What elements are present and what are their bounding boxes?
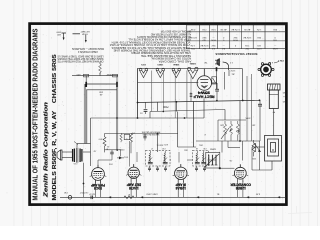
svg-text:TRIM: TRIM — [82, 33, 88, 35]
svg-text:1M: 1M — [252, 124, 255, 126]
svg-text:12AT6: 12AT6 — [129, 186, 139, 190]
capacitor C16 on bus — [90, 196, 92, 200]
svg-text:LINE: LINE — [272, 47, 277, 49]
wire v2 x129 — [129, 141, 131, 167]
wire transformer top to bus — [77, 143, 91, 145]
wire stubs 600 line to bar — [85, 76, 87, 84]
wire x251.5 drop — [251, 74, 253, 141]
wires IF to tubes — [170, 159, 171, 161]
wire x177.5 drop low — [177, 112, 179, 148]
wire main vertical x137.5 — [137, 69, 139, 118]
speaker — [57, 150, 62, 160]
svg-text:VOLTAGES MEASURED FROM SOCKET: VOLTAGES MEASURED FROM SOCKET TERMINALS … — [111, 40, 190, 43]
wire v3 top — [178, 152, 180, 163]
svg-text:USE AN ISOLATION TRANSFORMER W: USE AN ISOLATION TRANSFORMER WHEN — [131, 51, 191, 54]
resistor small x121 — [120, 134, 122, 143]
svg-text:PIN 1: PIN 1 — [277, 59, 283, 61]
component box 10K — [124, 134, 130, 139]
svg-text:75V: 75V — [245, 47, 249, 49]
svg-text:USED CHASSIS 2: USED CHASSIS 2 — [77, 50, 98, 53]
resistor on bus — [124, 196, 134, 199]
svg-text:220K: 220K — [119, 148, 124, 150]
wire x157.5 drop to IF — [157, 134, 159, 153]
svg-text:WAVE MAGNET — DATA ABOVE: WAVE MAGNET — DATA ABOVE — [72, 47, 104, 50]
svg-text:12BE6: 12BE6 — [189, 62, 196, 64]
tube V1 50C5 output — [90, 165, 107, 184]
wire right side vertical — [116, 84, 118, 150]
resistor R12 vertical — [223, 121, 226, 141]
svg-text:117V: 117V — [230, 69, 235, 71]
wire x204 tube down — [203, 99, 205, 119]
svg-text:TAKEN WITH SET OPERATING FROM: TAKEN WITH SET OPERATING FROM THE POWER … — [113, 49, 190, 52]
IF transformer T1 1st IF dashed can — [193, 150, 209, 166]
svg-text:12V: 12V — [257, 44, 261, 46]
tube V5 35W4 rectifier — [197, 69, 217, 91]
svg-text:RECT HALF: RECT HALF — [194, 94, 215, 98]
svg-text:455 KC: 455 KC — [156, 144, 163, 146]
svg-text:PM: PM — [64, 191, 67, 193]
svg-text:AC IN: AC IN — [244, 28, 250, 31]
svg-text:SERVICING THIS RECEIVER SEE TH: SERVICING THIS RECEIVER SEE THE — [140, 54, 190, 56]
wire x176.5 drop — [176, 102, 178, 112]
svg-text:95V: 95V — [211, 44, 215, 46]
svg-text:7.5V: 7.5V — [245, 44, 250, 46]
capacitor C5 — [111, 150, 113, 152]
svg-text:TONE SWITCH AT NORMAL DIAL SET: TONE SWITCH AT NORMAL DIAL SET AT 540 KC… — [111, 46, 190, 49]
svg-text:OUTPUT: OUTPUT — [79, 191, 88, 193]
svg-text:95V: 95V — [273, 28, 277, 30]
wire crossbar y90 — [86, 89, 117, 91]
svg-text:117V AC: 117V AC — [200, 44, 209, 47]
wave magnet loop antenna nested boxes — [265, 136, 282, 162]
terminal circle — [68, 196, 72, 200]
svg-text:M: M — [272, 148, 274, 151]
capacitor C9 — [215, 88, 219, 90]
wire grid bus y133.5 — [105, 133, 179, 135]
svg-text:SHOWN IN OHMS: SHOWN IN OHMS — [142, 133, 159, 135]
arrows on bus — [108, 196, 111, 198]
svg-text:GANG: GANG — [210, 148, 217, 151]
svg-text:7.5V: 7.5V — [202, 28, 207, 30]
wire bottom AC bus — [60, 196, 286, 198]
AC line plug — [215, 59, 229, 70]
border frame — [30, 24, 287, 205]
svg-text:LEWIS IS BLOWN BACK TONE IF WA: LEWIS IS BLOWN BACK TONE IF WAVE US — [57, 54, 103, 57]
svg-text:AC: AC — [231, 73, 234, 76]
heater drop wires — [151, 71, 153, 112]
resistor line cord 600 ohm — [72, 75, 118, 77]
svg-text:175: 175 — [132, 131, 135, 133]
caps below IF cans — [149, 166, 151, 168]
junction tick on heater line — [216, 67, 218, 71]
svg-text:12BA6: 12BA6 — [176, 186, 186, 190]
tuning capacitor gang — [206, 152, 220, 168]
svg-text:OSC: OSC — [198, 144, 203, 146]
svg-text:C10: C10 — [203, 147, 206, 149]
wire x247 drop — [246, 76, 248, 141]
tube socket bottom view diagram — [258, 63, 274, 77]
svg-text:47K: 47K — [164, 143, 168, 145]
tube V3 12BA6 IF amp — [173, 164, 189, 182]
wire bus y141 right segment — [196, 140, 260, 142]
resistor R surge left of T5 — [190, 75, 192, 93]
wire y111.5 L — [150, 110, 225, 112]
resistor R14 vertical — [236, 121, 239, 141]
svg-text:EXT ANT: EXT ANT — [80, 30, 90, 33]
wire plate line y82.4 to rectifier — [138, 81, 199, 83]
svg-text:117V AC: 117V AC — [231, 28, 240, 31]
svg-text:12AT6: 12AT6 — [156, 63, 163, 66]
svg-text:VTVM NO SIGNAL LINE AT 117V AC: VTVM NO SIGNAL LINE AT 117V AC VOLUME CO… — [109, 43, 190, 46]
svg-text:75V: 75V — [202, 38, 206, 40]
svg-text:117V AC: 117V AC — [188, 36, 197, 39]
svg-text:C12: C12 — [162, 147, 165, 149]
trimmer cap TRIM label + arrow — [73, 33, 81, 35]
svg-text:LINE CORD: LINE CORD — [146, 193, 158, 195]
capacitor C6 below grid bus — [144, 134, 146, 137]
dial lamp assembly top bar — [87, 83, 118, 85]
wire y120 — [218, 119, 246, 121]
svg-text:L7: L7 — [151, 147, 153, 149]
wire voice coil — [62, 151, 72, 153]
svg-text:HTR: HTR — [256, 47, 261, 49]
svg-text:1.2V: 1.2V — [256, 28, 261, 30]
svg-text:ADJUST TRIMMERS FOR MAX READIN: ADJUST TRIMMERS FOR MAX READING ALWAYS — [137, 35, 191, 38]
svg-text:117V AC: 117V AC — [243, 36, 252, 39]
svg-text:95V: 95V — [233, 36, 237, 38]
svg-text:12BA6: 12BA6 — [172, 63, 179, 66]
wire from 600 ohm to pilot resistor — [99, 63, 101, 65]
svg-text:35W4: 35W4 — [198, 91, 210, 95]
wire jog y147 — [178, 146, 197, 148]
svg-text:KEEP SIGNAL INPUT LOW AS POSSI: KEEP SIGNAL INPUT LOW AS POSSIBLE NOTE A… — [128, 38, 191, 41]
svg-text:MANUAL OF 1955 MOST-OFTEN-NEED: MANUAL OF 1955 MOST-OFTEN-NEEDED RADIO D… — [33, 28, 40, 200]
svg-text:22K: 22K — [220, 124, 224, 126]
svg-text:75V: 75V — [191, 47, 195, 49]
svg-text:ON WAVE MAGNET ROD ANTENNA FIT: ON WAVE MAGNET ROD ANTENNA FITS — [57, 60, 104, 63]
switch lever diagonal — [221, 128, 229, 139]
resistor R3b vertical x131 — [130, 134, 133, 154]
svg-text:NOTES ON CHASSIS REMOVAL: NOTES ON CHASSIS REMOVAL — [150, 57, 191, 60]
wire x193.5 drop — [193, 102, 195, 148]
capacitor C_ant with down arrow — [62, 32, 67, 34]
svg-text:95V: 95V — [257, 36, 261, 38]
svg-text:22K: 22K — [252, 157, 256, 159]
tube heater symbol 12BA6 — [172, 68, 180, 77]
svg-text:TM: TM — [204, 61, 207, 63]
wire corner x90.5 y118 — [91, 117, 205, 119]
wire B+ bus sloped — [138, 100, 260, 102]
wire gang to V4 — [220, 167, 235, 169]
svg-text:HTR: HTR — [211, 38, 216, 40]
tube V2 12AT6 detector — [126, 164, 141, 181]
tube heater symbol 12AT6 — [156, 68, 164, 77]
diode arrow D1 — [119, 156, 122, 159]
wire x240 drop — [239, 101, 241, 141]
wire x259.5 drop to loop — [259, 141, 261, 170]
IF transformer T2 2nd IF dashed can — [146, 150, 171, 166]
output transformer T_out — [73, 148, 82, 163]
tube heater symbol 50C5 — [139, 68, 147, 77]
svg-text:1000: 1000 — [56, 31, 62, 33]
wire plate y150 — [105, 149, 121, 151]
wire V4 top — [242, 141, 244, 161]
wire heater bus — [137, 68, 243, 70]
wire cap down — [273, 109, 275, 136]
svg-text:25K: 25K — [99, 90, 103, 92]
svg-text:B2 47: B2 47 — [88, 192, 94, 194]
wire jog left of transformer — [74, 142, 78, 145]
svg-text:95V: 95V — [202, 36, 206, 38]
wire loop bottom — [252, 169, 272, 171]
wire left side vertical double — [84, 84, 86, 144]
electrolytic capacitor C20 filter — [268, 84, 281, 109]
wire x100 to note — [99, 62, 101, 63]
svg-text:0.5V: 0.5V — [190, 28, 195, 30]
resistor R13 vertical — [229, 121, 232, 141]
tube V4 12BE6 converter — [232, 164, 248, 182]
svg-text:ALIGNMENT USE OUTPUT METER AND: ALIGNMENT USE OUTPUT METER AND — [151, 32, 192, 35]
svg-text:SOCKET VOLTAGE READINGS: SOCKET VOLTAGE READINGS — [216, 52, 258, 56]
svg-text:L5: L5 — [196, 147, 198, 149]
svg-text:RESISTOR VALUES: RESISTOR VALUES — [141, 130, 160, 133]
svg-text:1.2V: 1.2V — [190, 44, 195, 46]
wire x216 down — [216, 69, 218, 90]
svg-text:6.3V: 6.3V — [255, 193, 260, 195]
svg-text:7500: 7500 — [163, 105, 169, 108]
wire v1 grid — [111, 157, 113, 161]
switch wire — [223, 72, 225, 90]
svg-text:135W: 135W — [106, 73, 113, 75]
svg-text:AC IN: AC IN — [220, 28, 226, 31]
tube heater symbol 12BE6 — [188, 67, 198, 79]
capacitor C21 at bus — [258, 103, 262, 105]
svg-text:1: 1 — [126, 137, 127, 139]
svg-text:0.5V: 0.5V — [211, 28, 216, 30]
svg-text:100K: 100K — [245, 117, 251, 119]
svg-text:75V: 75V — [273, 38, 277, 40]
tube leads to bus — [94, 181, 96, 198]
svg-text:AND DIAL CORD DATA: AND DIAL CORD DATA — [158, 59, 191, 62]
variable cap arrow to loop — [252, 146, 265, 148]
svg-text:12BE6: 12BE6 — [236, 186, 246, 190]
voltage chart table — [187, 25, 287, 49]
wire speaker frame ground drop — [83, 163, 85, 198]
wire plug down — [228, 70, 230, 76]
resistor R15 — [252, 140, 255, 156]
svg-text:MODELS R509F, R, V, W, AY C: MODELS R509F, R, V, W, AY CHASSIS 5R05 — [52, 54, 58, 200]
svg-text:WAVE USED ON SET WONT THE CHAS: WAVE USED ON SET WONT THE CHASSIS — [57, 57, 103, 60]
wire heater to bus drop — [242, 69, 244, 101]
resistor R3 vertical above V1 — [103, 134, 106, 153]
switch SW1 on volume control — [212, 77, 217, 84]
svg-text:HTR: HTR — [233, 38, 238, 40]
svg-text:Zenith Radio Corporation: Zenith Radio Corporation — [44, 102, 50, 199]
capacitor C8 hanging from bus — [145, 102, 147, 108]
schematic drawing — [56, 25, 286, 199]
